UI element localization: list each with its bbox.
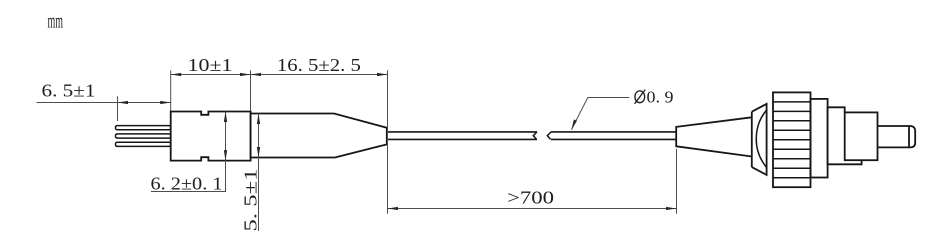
FC connector collar B [828, 107, 862, 164]
fiber segment 2 bottom line [551, 138, 676, 140]
svg-text:5. 5±1: 5. 5±1 [240, 169, 260, 232]
dimension 6.2±0.1 top arrowhead [224, 112, 227, 123]
knurl line 4 [773, 129, 811, 131]
dimension 6.5±1 left arrowhead [118, 101, 129, 104]
FC ferrule joint line [908, 126, 910, 147]
FC ferrule barrel top [878, 125, 910, 127]
fiber break cap left [533, 132, 537, 140]
knurl line 5 [773, 139, 811, 141]
dimension 5.5±1 vertical arrow line [258, 114, 260, 158]
dimension 6.2±0.1 leader [151, 161, 226, 192]
svg-text:6. 2±0. 1: 6. 2±0. 1 [151, 173, 223, 193]
svg-text:0. 9: 0. 9 [647, 87, 674, 106]
FC connector boot (tapered strain relief) [676, 117, 752, 156]
knurl line 9 [773, 177, 811, 179]
dimension >700 line [388, 208, 677, 210]
FC connector collar A [811, 99, 828, 178]
knurl line 7 [773, 158, 811, 160]
dimension 16.5±2.5 left arrowhead [251, 73, 262, 76]
svg-text:>700: >700 [507, 188, 554, 208]
FC knurled coupling nut [773, 92, 811, 187]
label fiber diameter 0.9 text [635, 87, 674, 106]
dimension 5.5±1 bottom arrowhead [257, 147, 260, 158]
FC connector flange face [751, 112, 753, 167]
pin 1 of laser diode [116, 126, 171, 130]
knurl line 6 [773, 148, 811, 150]
fiber break cap right [547, 132, 551, 140]
extension line at can left face [170, 70, 172, 110]
svg-text:10±1: 10±1 [188, 55, 233, 75]
dimension >700 left arrowhead [388, 207, 399, 210]
dimension 10±1 right arrowhead [240, 73, 251, 76]
knurl line 1 [773, 101, 811, 103]
top dimension line [171, 74, 388, 76]
extension line at FC boot [676, 149, 678, 214]
FC connector body C [845, 112, 878, 160]
dimension >700 right arrowhead [666, 207, 677, 210]
leader line for fiber diameter [571, 98, 629, 130]
FC connector dome arc [756, 110, 766, 168]
strain-relief boot (left, tapers to fiber) [251, 114, 387, 158]
svg-text:6. 5±1: 6. 5±1 [42, 81, 96, 101]
knurl line 2 [773, 110, 811, 112]
pin 3 of laser diode [116, 142, 171, 146]
dimension 6.2±0.1 bottom arrowhead [224, 150, 227, 161]
TO-can body with groove [171, 112, 251, 161]
knurl line 8 [773, 167, 811, 169]
extension line at can right face [250, 70, 252, 110]
pin 2 of laser diode [116, 134, 171, 138]
fiber segment 1 top line [388, 131, 537, 133]
dimension 16.5±2.5 right arrowhead [377, 73, 388, 76]
FC ferrule tip [909, 126, 915, 147]
FC connector flange trapezoid [752, 104, 767, 175]
dimension 6.5±1 right arrowhead [160, 101, 171, 104]
svg-text:mm: mm [48, 11, 64, 33]
dimension 6.5±1 line [37, 102, 171, 104]
dimension 6.2±0.1 vertical arrow line [225, 112, 227, 161]
dimension 5.5±1 top arrowhead [257, 114, 260, 125]
FC ferrule barrel bottom [878, 146, 910, 148]
knurl line 3 [773, 120, 811, 122]
dimension 5.5±1 leader [258, 158, 260, 232]
leader arrowhead [571, 119, 577, 129]
dimension 6.5±1 extension line [117, 96, 119, 121]
svg-text:16. 5±2. 5: 16. 5±2. 5 [277, 55, 361, 75]
fiber segment 1 bottom line [388, 138, 537, 140]
dimension 10±1 left arrowhead [171, 73, 182, 76]
extension line at boot tip [387, 70, 389, 214]
fiber segment 2 top line [551, 131, 676, 133]
